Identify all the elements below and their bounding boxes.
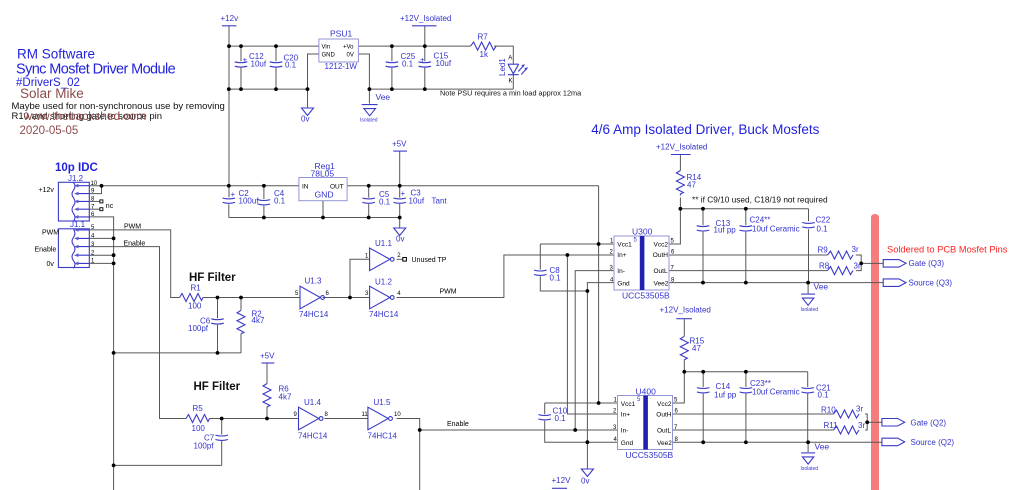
wire R9 out [856, 255, 861, 263]
wire psu 0V stub [358, 54, 369, 104]
svg-text:nc: nc [106, 203, 114, 210]
wire branch up to U1.1 [350, 259, 370, 297]
wire U400 Vcc1 row [545, 402, 618, 404]
wire LED cathode down [512, 75, 514, 89]
svg-text:+12V: +12V [552, 476, 572, 485]
svg-text:0V: 0V [347, 53, 354, 59]
wire connector pin10 +12v to Reg1 IN [89, 185, 299, 187]
resistor R15 [680, 336, 704, 360]
wire ch2 top bus [684, 371, 807, 373]
svg-text:3r: 3r [854, 261, 861, 270]
capacitor C13 [697, 219, 737, 235]
svg-text:Sync Mosfet Driver Module: Sync Mosfet Driver Module [16, 62, 176, 78]
svg-text:Vcc1: Vcc1 [617, 241, 632, 248]
wire gate Q2 [867, 421, 882, 423]
wire R6 leads [266, 363, 268, 419]
svg-text:47: 47 [687, 180, 696, 189]
output Source Q3 [883, 279, 952, 288]
wire connector pin4 stub [89, 237, 113, 239]
svg-text:GND: GND [322, 53, 336, 59]
svg-text:Enable: Enable [447, 421, 469, 428]
svg-text:OutL: OutL [654, 268, 668, 275]
output Gate Q2 [882, 418, 947, 427]
svg-text:4/6 Amp Isolated Driver, Buck: 4/6 Amp Isolated Driver, Buck Mosfets [591, 122, 819, 137]
output Gate Q3 [883, 259, 944, 268]
svg-text:R5: R5 [193, 404, 204, 413]
svg-text:Vee: Vee [376, 92, 391, 102]
svg-text:Vee: Vee [814, 282, 829, 292]
svg-text:Led1: Led1 [498, 58, 507, 76]
svg-text:0.1: 0.1 [285, 61, 297, 70]
svg-text:HF Filter: HF Filter [194, 381, 241, 393]
capacitor C15 [419, 52, 452, 69]
svg-text:74HC14: 74HC14 [298, 431, 328, 440]
svg-text:3r: 3r [856, 405, 863, 414]
regulator Reg1 78L05 [299, 161, 347, 201]
wire R1 out to U1.3 [203, 297, 300, 299]
capacitor C8 [534, 266, 561, 283]
wire Reg1 gnd stub [322, 201, 324, 218]
svg-text:100: 100 [192, 424, 206, 433]
svg-text:OutH: OutH [653, 252, 668, 259]
svg-text:0v: 0v [301, 115, 309, 124]
wire C4 leads [263, 186, 265, 218]
wire pin3 Enable to R5 [89, 247, 186, 419]
svg-text:PWM: PWM [124, 224, 141, 231]
wire R5 out to U1.4 [210, 418, 299, 420]
wire R15 leads [683, 319, 685, 372]
wire C5 leads [368, 186, 370, 218]
inverter U1.3 [295, 277, 330, 320]
nc terminal pin7 [100, 208, 103, 211]
wire connector pin9 join [89, 186, 101, 194]
wire C2 bottom [228, 204, 230, 217]
svg-text:Vcc1: Vcc1 [621, 401, 636, 408]
capacitor C21 [801, 384, 831, 400]
wire R2 leads [240, 298, 242, 353]
wire U400 OutH to R10 [673, 413, 834, 415]
ground 0v below C3 [394, 228, 406, 244]
svg-text:Vcc2: Vcc2 [657, 401, 672, 408]
wire R14 leads [679, 155, 681, 209]
wire U1.3 out to U1.2 [323, 297, 370, 299]
wire connector pin6 to 0v bus [89, 217, 113, 490]
driver U300 UCC53505B [610, 226, 676, 300]
wire U300 gnd stub [587, 283, 614, 291]
svg-text:0.1: 0.1 [817, 224, 829, 233]
wire +5V drop to Vcc1 pins [598, 186, 600, 403]
svg-text:Gnd: Gnd [617, 280, 630, 287]
resistor R14 [676, 171, 701, 196]
svg-text:Source (Q3): Source (Q3) [909, 279, 953, 288]
svg-text:UCC53505B: UCC53505B [626, 450, 674, 460]
svg-text:47: 47 [692, 344, 701, 353]
capacitor C4 [258, 189, 286, 205]
wire connector pin7 nc stub [89, 208, 100, 210]
capacitor C10 [538, 407, 567, 423]
ground 0v below U400 [581, 469, 593, 486]
wire U300 Vcc1 row [540, 243, 614, 245]
svg-text:In+: In+ [621, 411, 630, 418]
svg-text:0.1: 0.1 [818, 391, 830, 400]
wire PWM drop to U400 In+ [567, 255, 617, 414]
power +12V_Isolated ch2 [660, 305, 711, 318]
svg-text:1212-1W: 1212-1W [325, 62, 358, 71]
svg-text:+12V_Isolated: +12V_Isolated [660, 305, 711, 314]
wire U300 Vee2 row to Source Q3 [669, 282, 883, 284]
svg-text:10uf Ceramic: 10uf Ceramic [752, 387, 800, 396]
wire R10 out [865, 414, 867, 422]
svg-text:PWM: PWM [440, 289, 457, 296]
wire R11 out [865, 422, 867, 430]
svg-text:R10: R10 [821, 405, 836, 414]
power +12V_Isolated top [400, 14, 451, 26]
wire C24 leads [745, 209, 747, 283]
wire C7 leads [221, 419, 223, 466]
svg-text:Enable: Enable [124, 240, 146, 247]
ground Vee isolated psu [360, 92, 390, 124]
connector J1.2 [58, 174, 97, 221]
svg-text:10uf: 10uf [436, 59, 452, 68]
svg-text:R11: R11 [824, 421, 839, 430]
wire Vee bus [369, 88, 513, 90]
svg-text:** if C9/10 used, C18/19 not r: ** if C9/10 used, C18/19 not required [692, 195, 828, 205]
svg-text:+: + [401, 189, 406, 198]
capacitor C23 [740, 379, 800, 396]
wire U300 In- to enable net [575, 271, 614, 430]
resistor R5 [186, 404, 210, 433]
svg-text:+12v: +12v [221, 14, 239, 23]
wire U1.2 out PWM to U300 In+ [397, 255, 614, 298]
wire U400 OutL to R11 [673, 429, 834, 431]
wire C25 leads [391, 46, 393, 89]
power +5V above R6 [260, 352, 275, 364]
svg-text:0v: 0v [47, 261, 55, 268]
wire U300 Vcc2 riser [669, 209, 680, 244]
capacitor C12 [235, 52, 267, 69]
wire 0v row mid [113, 352, 241, 354]
svg-text:0.1: 0.1 [402, 60, 414, 69]
wire Reg1 out +5V bus [347, 185, 598, 187]
svg-text:Isolated: Isolated [801, 307, 819, 313]
svg-text:+: + [420, 56, 425, 65]
svg-text:R9: R9 [818, 246, 829, 255]
svg-text:PWM: PWM [42, 230, 59, 237]
inverter U1.5 [362, 398, 402, 440]
svg-text:Vin: Vin [322, 45, 331, 51]
inverter U1.1 [365, 239, 401, 271]
wire 0v row bottom [113, 464, 222, 466]
svg-text:J1.1: J1.1 [70, 220, 86, 229]
svg-text:Unused TP: Unused TP [412, 257, 447, 264]
svg-text:2020-05-05: 2020-05-05 [20, 125, 79, 137]
svg-text:0.1: 0.1 [555, 414, 567, 423]
svg-text:+: + [243, 56, 248, 65]
svg-text:Note PSU requires a min load a: Note PSU requires a min load approx 12ma [440, 89, 582, 98]
svg-text:In-: In- [617, 268, 625, 275]
svg-text:Gate (Q3): Gate (Q3) [909, 259, 945, 268]
svg-text:Source (Q2): Source (Q2) [911, 438, 955, 447]
wire connector pin2 stub [89, 254, 113, 256]
unused TP terminal [403, 258, 407, 262]
svg-text:+12V_Isolated: +12V_Isolated [656, 143, 707, 152]
svg-text:1uf pp: 1uf pp [714, 391, 737, 400]
wire +Vo bus [358, 45, 470, 47]
svg-text:RM Software: RM Software [17, 47, 95, 62]
svg-text:Enable: Enable [35, 246, 57, 253]
svg-text:0.1: 0.1 [274, 197, 286, 206]
connector J1.1 [58, 220, 95, 268]
wire C21 leads [807, 372, 809, 443]
svg-text:Tant: Tant [432, 197, 448, 206]
wire enable branch down off page [419, 430, 421, 490]
capacitor C2 [223, 189, 260, 206]
wire U300 OutH to R9 [669, 254, 828, 256]
svg-text:Vee2: Vee2 [657, 440, 672, 447]
wire C15 +12V_Isolated leads [424, 26, 426, 89]
svg-text:10uf Ceramic: 10uf Ceramic [752, 225, 800, 234]
svg-text:1uf pp: 1uf pp [714, 226, 737, 235]
svg-text:A: A [508, 56, 512, 62]
svg-text:4k7: 4k7 [279, 393, 292, 402]
svg-text:U300: U300 [632, 226, 653, 236]
svg-text:Gate (Q2): Gate (Q2) [911, 418, 947, 427]
nc terminal pin8 [100, 200, 103, 203]
wire pin5 PWM to R1 [89, 230, 179, 298]
svg-text:0v: 0v [581, 477, 589, 486]
inverter U1.4 [294, 398, 329, 440]
svg-text:Vee: Vee [815, 441, 830, 451]
wire connector pin1 stub [89, 262, 113, 264]
svg-text:OutH: OutH [656, 411, 671, 418]
svg-text:C24**: C24** [750, 216, 771, 225]
svg-text:In-: In- [621, 427, 629, 434]
wire +5V symbol to C3 and 0v [399, 151, 401, 228]
svg-text:U1.2: U1.2 [375, 278, 392, 287]
power +12V_Isolated ch1 [656, 143, 707, 155]
wire C8 leads and gnd link [540, 244, 587, 291]
wire gnd bus under reg [229, 217, 400, 219]
svg-text:+12v: +12v [39, 187, 55, 194]
output Source Q2 [882, 438, 955, 447]
driver U400 UCC53505B [613, 386, 679, 460]
wire U1.4 out to U1.5 [325, 418, 368, 420]
wire C10 leads and gnd link [545, 403, 618, 442]
capacitor C24 [740, 216, 800, 234]
resistor R6 [263, 384, 292, 407]
wire C23 leads [745, 372, 747, 443]
svg-text:+12V_Isolated: +12V_Isolated [400, 14, 451, 23]
wire R7 to LED [494, 46, 513, 64]
svg-text:GND: GND [315, 190, 334, 200]
svg-text:Vcc2: Vcc2 [654, 241, 669, 248]
capacitor C7 [194, 434, 229, 451]
wire ch2 vee gnd lead [807, 442, 809, 452]
svg-text:IN: IN [302, 184, 309, 191]
svg-text:K: K [509, 79, 513, 85]
svg-text:1k: 1k [480, 50, 489, 59]
svg-text:+: + [231, 190, 236, 199]
svg-text:74HC14: 74HC14 [368, 431, 398, 440]
wire C22 leads [808, 209, 810, 283]
svg-text:10uf: 10uf [409, 197, 425, 206]
svg-text:www.thebackshed.com: www.thebackshed.com [23, 109, 147, 123]
svg-text:Isolated: Isolated [360, 118, 378, 124]
svg-text:Gnd: Gnd [621, 440, 634, 447]
wire psu gnd stub [308, 54, 319, 108]
svg-text:U1.3: U1.3 [305, 277, 322, 286]
capacitor C20 [270, 54, 299, 70]
svg-text:100: 100 [188, 302, 202, 311]
ground isolated ch1 [801, 294, 819, 313]
wire gate Q3 [861, 262, 883, 264]
resistor R11 [824, 421, 866, 434]
svg-text:100pf: 100pf [194, 442, 215, 451]
capacitor C22 [802, 216, 831, 234]
resistor R2 [237, 310, 265, 334]
resistor R1 [180, 284, 204, 311]
svg-text:Isolated: Isolated [801, 466, 819, 472]
wire C12 leads [240, 46, 242, 89]
resistor R7 [471, 33, 497, 60]
svg-text:78L05: 78L05 [311, 169, 335, 179]
capacitor C14 [697, 382, 737, 400]
svg-text:10: 10 [394, 412, 401, 418]
inverter U1.2 [365, 278, 401, 320]
svg-text:74HC14: 74HC14 [369, 310, 399, 319]
wire psu left 0v bus [229, 88, 308, 90]
svg-text:3r: 3r [858, 421, 865, 430]
ground 0v psu left [301, 108, 314, 124]
capacitor C25 [386, 52, 416, 69]
power +5V above C3 [392, 140, 407, 152]
svg-text:0.1: 0.1 [379, 198, 391, 207]
wire C14 leads [702, 372, 704, 443]
capacitor C6 [188, 317, 224, 334]
wire U400 Vee2 row to Source Q2 [673, 441, 882, 443]
svg-text:U400: U400 [636, 386, 657, 396]
svg-text:U1.5: U1.5 [374, 398, 391, 407]
wire connector pin8 nc stub [89, 200, 100, 202]
svg-text:0v: 0v [396, 235, 404, 244]
svg-text:R7: R7 [478, 33, 489, 42]
svg-text:74HC14: 74HC14 [299, 310, 329, 319]
resistor R10 [821, 405, 863, 418]
svg-text:HF Filter: HF Filter [189, 272, 236, 284]
resistor R9 [818, 245, 859, 259]
svg-text:PSU1: PSU1 [330, 29, 352, 39]
wire gnd drop to U400 and 0v [586, 291, 588, 469]
svg-text:10p IDC: 10p IDC [55, 162, 98, 174]
PSU module PSU1 [319, 29, 359, 72]
svg-text:OutL: OutL [657, 427, 671, 434]
LED Led1 [498, 56, 528, 85]
wire U400 Vcc2 riser [673, 372, 685, 403]
ground isolated ch2 [801, 453, 819, 472]
wire C13 leads [702, 209, 704, 283]
wire U1.1 out to TP [397, 258, 403, 260]
svg-text:C22: C22 [816, 216, 831, 225]
svg-text:Soldered to PCB Mosfet Pins: Soldered to PCB Mosfet Pins [887, 245, 1008, 255]
svg-text:R8: R8 [819, 261, 830, 270]
svg-text:4k7: 4k7 [252, 316, 265, 325]
svg-text:U1.4: U1.4 [304, 398, 321, 407]
svg-text:R1: R1 [191, 284, 202, 293]
pcb solder highlight bar [871, 214, 879, 490]
svg-text:10: 10 [91, 181, 98, 187]
wire U1.5 out Enable to U400 In- [397, 419, 618, 431]
capacitor C3 [393, 189, 447, 206]
wire ch1 top bus [680, 208, 808, 210]
svg-text:UCC53505B: UCC53505B [622, 290, 670, 300]
svg-text:Solar Mike: Solar Mike [20, 86, 84, 101]
svg-text:+Vo: +Vo [343, 45, 354, 51]
power +12v top [221, 14, 239, 26]
svg-text:Vee2: Vee2 [654, 280, 669, 287]
svg-text:+5V: +5V [392, 140, 407, 149]
wire ch1 vee gnd lead [807, 283, 809, 294]
svg-text:100uf: 100uf [239, 197, 260, 206]
svg-text:0.1: 0.1 [550, 274, 562, 283]
svg-text:+5V: +5V [260, 352, 275, 361]
resistor R8 [819, 261, 861, 274]
svg-text:10uf: 10uf [251, 60, 267, 69]
capacitor C5 [362, 190, 390, 207]
wire R8 out [856, 263, 861, 270]
wire C6 leads [217, 298, 219, 353]
wire U300 OutL to R8 [669, 270, 828, 272]
svg-text:In+: In+ [617, 252, 626, 259]
wire +12v rail down to C2 [228, 26, 230, 198]
svg-text:11: 11 [362, 412, 369, 418]
svg-text:3r: 3r [852, 245, 859, 254]
svg-text:J1.2: J1.2 [68, 174, 84, 183]
power +12V bottom stub [552, 476, 572, 488]
wire psu input bus [229, 45, 319, 47]
svg-text:U1.1: U1.1 [375, 239, 392, 248]
wire C20 leads [275, 46, 277, 89]
svg-text:100pf: 100pf [188, 324, 209, 333]
